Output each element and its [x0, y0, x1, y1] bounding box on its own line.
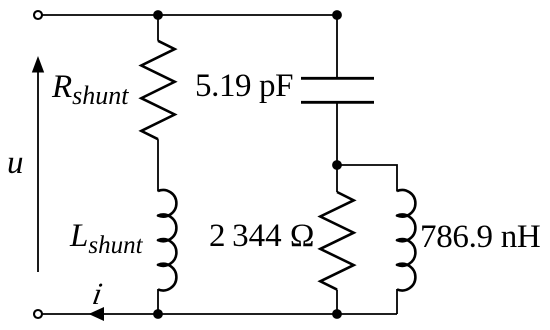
capacitor 5.19 pF	[301, 77, 374, 80]
label 5.19 pF	[195, 68, 293, 105]
label L_shunt	[70, 218, 143, 260]
label i	[90, 276, 105, 312]
inductor 786.9 nH	[397, 190, 415, 290]
resistor R_shunt	[141, 41, 174, 139]
wire resistor 2344 bottom stub	[336, 290, 338, 314]
wire capacitor top stub	[336, 15, 338, 77]
wire to right inductor branch	[337, 165, 397, 192]
inductor L_shunt	[158, 190, 176, 290]
arrowhead current i	[89, 307, 104, 321]
wire resistor 2344 top stub	[336, 165, 338, 192]
label u	[7, 145, 24, 182]
arrow voltage u	[37, 71, 39, 272]
wire left column top stub	[157, 15, 159, 41]
node junction bottom at L_shunt	[153, 309, 163, 319]
resistor 2 344 Ohm	[320, 192, 353, 290]
wire L_shunt bottom stub	[157, 289, 159, 314]
node junction mid right	[332, 160, 342, 170]
wire between R_shunt and L_shunt	[157, 139, 159, 191]
terminal top-left	[34, 11, 42, 19]
node junction top at R_shunt	[153, 10, 163, 20]
terminal bottom-left	[34, 310, 42, 318]
wire top rail	[42, 14, 337, 16]
wire inductor bottom stub	[396, 289, 398, 314]
wire capacitor bottom stub	[336, 104, 338, 166]
label R_shunt	[52, 69, 129, 111]
label 786.9 nH	[420, 219, 540, 256]
wire bottom rail	[42, 313, 397, 315]
node junction top right	[332, 10, 342, 20]
node junction bottom right	[332, 309, 342, 319]
label 2 344 Ohm	[209, 218, 314, 255]
